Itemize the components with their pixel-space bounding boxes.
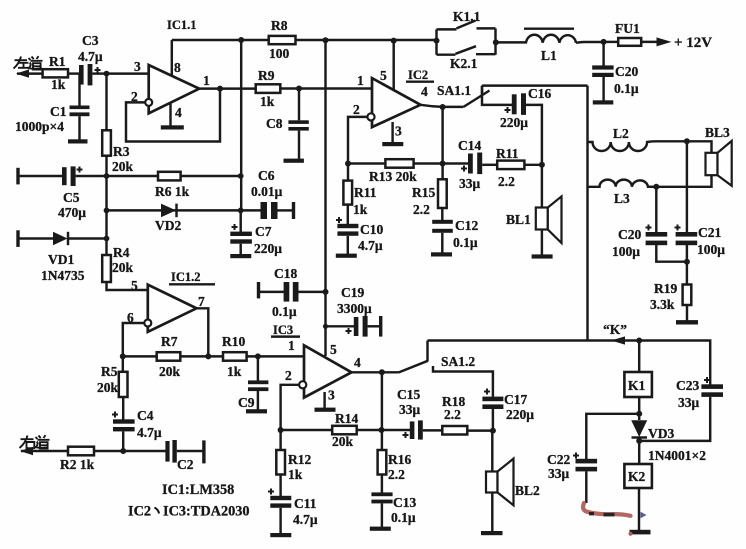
capacitor C1	[70, 106, 90, 117]
resistor R1	[43, 69, 68, 77]
ground (C10)	[336, 254, 357, 258]
svg-text:R8: R8	[271, 18, 288, 33]
wire: L1 to FU1 node	[576, 41, 604, 44]
wire: R2 to C2	[94, 450, 166, 452]
svg-text:C9: C9	[238, 395, 255, 410]
capacitor C9	[248, 380, 268, 391]
svg-text:+ 12V: + 12V	[674, 35, 712, 51]
wire: BL2 to ground	[491, 493, 493, 532]
wire: IC1.2 output down to R7 line	[196, 308, 208, 356]
wire: IC2 ground stem	[391, 122, 393, 143]
wire: IC1.1 output to R9	[199, 87, 256, 89]
wire: C18 line	[259, 291, 286, 293]
capacitor C3 (electrolytic, horizontal)	[79, 64, 101, 85]
svg-text:1: 1	[357, 73, 364, 88]
capacitor C11 (electrolytic)	[268, 489, 291, 508]
red annotation mark	[583, 503, 632, 536]
svg-text:C5: C5	[63, 190, 80, 205]
junction: VD2 line on main bus	[104, 208, 110, 214]
op-amp U1 IC1.1	[149, 65, 200, 113]
+12V arrow	[657, 37, 672, 46]
svg-text:C10: C10	[360, 222, 383, 237]
junction: rail / long bus	[323, 37, 329, 43]
wire: L3 line to BL3 bottom	[648, 175, 712, 187]
svg-text:C14: C14	[458, 138, 481, 153]
wire: R5 to C4	[122, 397, 124, 420]
wire: C3 to node A	[92, 72, 107, 74]
svg-text:R10: R10	[222, 334, 245, 349]
svg-text:3300μ: 3300μ	[337, 301, 372, 316]
wire: R12 branch	[279, 430, 281, 450]
junction: C16/R11/BL1 node	[539, 162, 545, 168]
capacitor C13	[371, 492, 392, 503]
wire: C6 to terminal	[278, 209, 294, 211]
junction: out/R7/R10 node	[205, 353, 211, 359]
terminal bar (C2 right)	[202, 440, 205, 463]
wire: BL1 to ground	[541, 230, 543, 255]
svg-text:C17: C17	[504, 392, 527, 407]
junction: K1/VD3/C22 node	[636, 411, 642, 417]
svg-text:20k: 20k	[112, 159, 134, 174]
wire: C13 to ground	[381, 503, 383, 527]
wire: node A to IC1.1 pin3	[107, 72, 150, 74]
wire: IC3 ground stem	[323, 392, 325, 408]
capacitor C5 (electrolytic)	[62, 166, 83, 186]
wire: left input line to R1	[17, 72, 42, 74]
svg-text:1N4735: 1N4735	[41, 268, 85, 283]
speaker BL3	[706, 141, 732, 186]
svg-text:C3: C3	[82, 33, 99, 48]
junction: R10/C9/IC3 pin1 node	[255, 353, 261, 359]
resistor R7	[157, 352, 181, 361]
inverting input bubble IC1.1	[145, 99, 152, 106]
wire: IC3 output and feedback riser	[351, 372, 398, 430]
svg-text:3: 3	[328, 388, 335, 403]
wire: C4 to R2 line	[122, 431, 124, 451]
ground (C13)	[370, 527, 391, 531]
relay contact K1.1 / K2.1 block	[437, 21, 496, 55]
resistor R3	[102, 130, 111, 155]
svg-text:IC1:LM358: IC1:LM358	[162, 482, 234, 498]
relay coil K2	[624, 464, 652, 488]
junction: K-block right	[493, 39, 499, 45]
svg-text:33μ: 33μ	[459, 176, 481, 191]
wire: to fuse	[604, 41, 618, 43]
speaker BL1	[536, 196, 562, 243]
svg-text:IC1.1: IC1.1	[167, 18, 197, 32]
resistor R12	[276, 450, 285, 475]
svg-text:1k: 1k	[227, 364, 242, 379]
wire: R9 to IC2 pin1	[280, 87, 372, 89]
capacitor C4 (electrolytic)	[112, 412, 135, 432]
svg-text:20k: 20k	[112, 260, 134, 275]
terminal bar (C19 right)	[379, 316, 382, 337]
junction: rail/IC2 pin5	[391, 38, 397, 44]
wire: node down to BL2	[491, 431, 493, 472]
svg-text:20k: 20k	[332, 434, 354, 449]
wire: C16 to BL1 node riser	[526, 105, 542, 165]
fuse FU1	[618, 38, 641, 46]
ground (C7)	[230, 254, 251, 258]
svg-text:IC3: IC3	[273, 323, 293, 337]
resistor R13	[385, 159, 413, 168]
ground (BL2)	[481, 531, 503, 535]
wire: C2 to terminal	[177, 450, 203, 452]
wire: node to IC3 pin1	[258, 355, 304, 357]
svg-text:100μ: 100μ	[697, 242, 725, 257]
wire: node to BL1	[541, 165, 543, 208]
svg-text:2.2: 2.2	[444, 407, 461, 422]
wire: R11 to BL1 node	[524, 164, 542, 166]
junction: rail / pin8 bus	[238, 37, 244, 43]
svg-text:5: 5	[330, 342, 337, 357]
junction: IC3 output node	[379, 369, 385, 375]
svg-text:100μ: 100μ	[612, 244, 640, 259]
svg-text:R3: R3	[113, 144, 130, 159]
wire: C16 branch	[482, 86, 512, 105]
wire: R7 line	[123, 355, 258, 357]
ground (IC1.1 pin4)	[161, 125, 184, 129]
svg-text:1k: 1k	[353, 202, 368, 217]
junction: C4/R2/C2 node	[120, 448, 126, 454]
relay coil K1	[624, 372, 652, 397]
svg-text:R6 1k: R6 1k	[155, 184, 190, 199]
svg-text:R11: R11	[496, 146, 519, 161]
svg-text:4.7μ: 4.7μ	[137, 425, 162, 440]
svg-text:2: 2	[353, 102, 360, 117]
wire: L2 to BL3	[656, 141, 712, 153]
svg-text:33μ: 33μ	[548, 466, 570, 481]
diode VD3 (cathode down)	[631, 420, 647, 437]
svg-text:L2: L2	[613, 126, 629, 141]
ground (C11)	[270, 533, 291, 537]
terminal bar (C6 right)	[292, 202, 295, 219]
svg-text:C22: C22	[547, 452, 570, 467]
capacitor C16 (electrolytic, horizontal)	[505, 93, 527, 115]
wire: node to C6	[241, 209, 262, 211]
ground (C20)	[593, 100, 614, 104]
svg-text:4: 4	[421, 84, 428, 99]
wire: IC2 pin5 riser from rail	[392, 41, 394, 91]
junction: IC2 output node	[440, 104, 446, 110]
svg-text:C1: C1	[50, 104, 67, 119]
svg-text:SA1.2: SA1.2	[441, 354, 475, 369]
svg-text:IC2: IC2	[408, 68, 428, 82]
wire: SA1.2 riser to K line	[426, 341, 428, 362]
svg-text:VD3: VD3	[648, 426, 674, 441]
switch SA1.2 blade	[399, 361, 428, 373]
wire: VD3 to K2	[638, 437, 640, 464]
ground (K2)	[630, 530, 651, 535]
op-amp U3 IC3	[304, 345, 352, 397]
node A junction	[104, 71, 110, 77]
junction: K line / K1	[636, 338, 642, 344]
wire: right vertical SA1.1 line down to K line	[586, 86, 588, 341]
svg-text:0.1μ: 0.1μ	[391, 510, 416, 525]
junction: pin6/R5/R7 node	[120, 353, 126, 359]
wire: R16 to C13	[381, 475, 383, 493]
capacitor C20 (100u, electrolytic)	[646, 225, 668, 246]
svg-text:C23: C23	[676, 378, 699, 393]
switch SA1.1 blade	[464, 91, 490, 107]
svg-text:2.2: 2.2	[498, 174, 515, 189]
svg-text:1k: 1k	[51, 77, 66, 92]
wire: R5 branch	[122, 356, 124, 372]
wire: branch to C22	[586, 414, 639, 459]
wire: K control line	[428, 341, 711, 385]
wire: drop to C1	[78, 74, 80, 106]
K line arrow	[611, 336, 625, 344]
resistor R11 (2.2)	[497, 161, 524, 170]
wire: SA1.1 throw contact tick	[481, 86, 483, 94]
blue arrow mark on red line	[641, 512, 647, 518]
wire: long bus rail to C18/C19/IC3 pin5	[324, 40, 326, 356]
junction: R9/C8 node	[296, 86, 302, 92]
junction: L1/FU1/C20 node	[601, 39, 607, 45]
svg-text:C11: C11	[294, 496, 317, 511]
svg-text:VD1: VD1	[48, 252, 74, 267]
svg-text:4.7μ: 4.7μ	[78, 49, 103, 64]
svg-text:R15: R15	[412, 185, 435, 200]
wire: vertical bus x241 (rail to VD2 line)	[240, 40, 242, 210]
junction: rail/K-block left	[434, 38, 440, 44]
wire: C21 riser	[686, 141, 688, 232]
svg-text:C7: C7	[255, 224, 272, 239]
junction: C17/R18/BL2 node	[490, 428, 496, 434]
wire: R16 branch	[381, 430, 383, 450]
input arrow right channel	[20, 447, 33, 455]
wire: R15 to C12	[441, 208, 443, 220]
junction: C19 corner	[323, 324, 328, 329]
wire: C22 bottom stub	[585, 471, 587, 503]
wire: C9 to ground	[257, 391, 259, 410]
capacitor C10 (electrolytic)	[336, 217, 358, 236]
wire: pin2 to R14 node	[281, 385, 300, 430]
svg-text:470μ: 470μ	[58, 205, 86, 220]
terminal bar (C18 left)	[257, 282, 260, 298]
svg-text:2.2: 2.2	[388, 467, 405, 482]
svg-text:R2 1k: R2 1k	[60, 457, 95, 472]
wire: C12 to ground	[441, 233, 443, 253]
resistor R2	[68, 447, 94, 456]
wire: pin 8 riser to +12V rail	[171, 40, 173, 76]
wire: bus node A down through R3,R4 to IC1.2 pin5	[107, 74, 149, 290]
inverting bubble IC3	[299, 381, 306, 388]
junction: bottom joint	[684, 259, 690, 265]
capacitor C22 (electrolytic)	[573, 453, 597, 472]
ground (C8)	[284, 159, 304, 163]
wire: pin6 to R7 node	[123, 323, 145, 356]
inductor L2	[588, 141, 657, 151]
diode VD1	[53, 232, 68, 245]
svg-text:4.7μ: 4.7μ	[358, 238, 383, 253]
svg-text:C12: C12	[455, 218, 478, 233]
wire: R11 1k branch	[347, 164, 349, 182]
wire: VD1 line	[18, 237, 54, 239]
svg-text:3: 3	[134, 59, 141, 74]
svg-text:IC1.2: IC1.2	[171, 270, 201, 284]
wire: K2 to ground	[638, 488, 640, 530]
junction: C18/bus	[323, 289, 329, 295]
wire: C8 stem	[298, 89, 300, 121]
wire: R19 to ground	[686, 305, 688, 321]
resistor R5	[119, 372, 128, 397]
wire: C1 to ground	[78, 116, 80, 140]
wire: SA1.1 line to right vertical	[482, 84, 588, 86]
svg-text:R16: R16	[388, 452, 411, 467]
svg-text:L3: L3	[614, 191, 630, 206]
ground (IC2 pin3)	[382, 142, 403, 146]
svg-text:R9: R9	[258, 68, 275, 83]
svg-text:5: 5	[380, 68, 387, 83]
svg-text:0.1μ: 0.1μ	[453, 235, 478, 250]
capacitor C18	[284, 282, 299, 302]
svg-text:C2: C2	[177, 457, 194, 472]
capacitor C6	[261, 202, 278, 219]
svg-text:C21: C21	[698, 225, 721, 240]
svg-text:“K”: “K”	[603, 322, 627, 337]
svg-text:R4: R4	[113, 245, 130, 260]
svg-text:C15: C15	[397, 387, 420, 402]
capacitor C12	[432, 220, 453, 233]
junction: R3/C5/R6 node	[104, 173, 110, 179]
junction: VD2/C6/C7 node on bus x241	[238, 208, 244, 214]
ground (C1)	[68, 139, 88, 143]
svg-text:BL3: BL3	[705, 125, 730, 140]
wire: C10 to ground	[347, 236, 349, 254]
junction: feedback tap	[217, 86, 223, 92]
node: right channel input 右道 (hand-drawn glyphs)	[20, 435, 50, 448]
wire: C20 stem	[602, 42, 604, 66]
svg-text:3.3k: 3.3k	[650, 297, 675, 312]
wire: C18 to bus	[298, 291, 326, 293]
junction: R6/bus	[238, 173, 244, 179]
svg-text:1: 1	[203, 73, 210, 88]
junction: pin2/R11/R13 node	[345, 161, 351, 167]
svg-text:5: 5	[131, 278, 138, 293]
svg-text:K2: K2	[628, 469, 646, 484]
wire: C5 line	[18, 175, 63, 177]
inductor L3	[588, 180, 656, 187]
svg-text:R7: R7	[161, 334, 178, 349]
ground (R19)	[676, 320, 698, 324]
svg-text:220μ: 220μ	[506, 407, 534, 422]
wire: R6 to bus x241	[181, 175, 241, 177]
svg-text:C13: C13	[393, 495, 416, 510]
resistor R18	[442, 426, 467, 435]
wire: C20/C21 bottom joint to R19	[656, 245, 687, 285]
wire: K1 lead	[638, 341, 640, 373]
svg-text:8: 8	[174, 60, 181, 75]
svg-text:BL2: BL2	[515, 483, 540, 498]
svg-text:33μ: 33μ	[399, 402, 421, 417]
svg-text:0.1μ: 0.1μ	[614, 81, 639, 96]
ground (IC3 pin3)	[315, 408, 336, 412]
wire: R1 to C3	[68, 72, 80, 74]
svg-text:C18: C18	[274, 266, 297, 281]
resistor R19	[683, 285, 692, 306]
wire: C17 to R18 node	[492, 409, 494, 431]
svg-text:1N4001×2: 1N4001×2	[648, 448, 706, 463]
svg-text:C20: C20	[618, 227, 641, 242]
svg-text:L1: L1	[541, 48, 557, 63]
ground (BL1)	[532, 254, 553, 258]
svg-text:BL1: BL1	[506, 212, 531, 227]
svg-text:R11: R11	[354, 185, 377, 200]
junction: VD3/K2/C23 node	[636, 438, 642, 444]
resistor R6	[158, 172, 181, 181]
svg-text:SA1.1: SA1.1	[437, 83, 471, 98]
op-amp U4 IC2	[372, 78, 421, 127]
resistor R4	[102, 255, 111, 282]
capacitor C17 (electrolytic)	[482, 389, 503, 410]
junction: R13/R15/C14 node	[440, 161, 446, 167]
wire: C20(100u) stem	[655, 187, 657, 232]
ground (C12)	[431, 252, 452, 256]
svg-text:1k: 1k	[260, 94, 275, 109]
junction: L2/C21/BL3 node	[684, 138, 690, 144]
wire: C11 to ground	[279, 508, 281, 534]
svg-text:100: 100	[269, 46, 290, 61]
svg-text:1k: 1k	[288, 467, 303, 482]
terminal bar (VD1 input)	[16, 230, 19, 247]
wire: feedback loop IC1.1 output to pin2	[126, 89, 220, 142]
junction: L3/C20 node	[653, 184, 659, 190]
wire: VD2 line	[107, 209, 241, 211]
wire: K-block to L1	[496, 41, 527, 43]
svg-text:0.1μ: 0.1μ	[272, 304, 297, 319]
wire: IC2 output to SA1.1	[420, 105, 463, 107]
capacitor C23 (electrolytic)	[701, 377, 723, 397]
svg-text:1: 1	[288, 338, 295, 353]
svg-text:20k: 20k	[159, 364, 181, 379]
junction: VD1/R4 node	[104, 236, 110, 242]
wire: IC1.1 ground stem	[169, 103, 171, 126]
wire: C19 to terminal	[368, 325, 380, 327]
junction: pin2/R12/R14 node	[278, 427, 284, 433]
svg-text:C8: C8	[266, 116, 283, 131]
svg-text:R1: R1	[49, 54, 66, 69]
svg-text:0.01μ: 0.01μ	[251, 184, 283, 199]
wire: R15 branch	[441, 164, 443, 180]
input arrow (left)	[16, 69, 29, 77]
resistor R15	[438, 179, 447, 208]
svg-text:4: 4	[354, 355, 361, 370]
ground (C9)	[246, 409, 267, 413]
svg-text:IC2: IC2	[128, 504, 151, 520]
wire: +12V top rail left span	[172, 39, 437, 41]
node: left channel input 左道 (hand-drawn glyphs)	[14, 56, 43, 69]
capacitor C19 (electrolytic)	[346, 316, 368, 337]
wire: R12 to C11	[279, 475, 281, 497]
wire: R14 line	[281, 429, 411, 431]
resistor R16	[378, 450, 387, 475]
svg-text:C19: C19	[341, 285, 364, 300]
capacitor C14 (electrolytic, horizontal)	[461, 153, 482, 175]
wire: C7 to ground	[239, 244, 241, 255]
wire: C8 to ground	[298, 131, 300, 159]
svg-text:220μ: 220μ	[254, 241, 282, 256]
capacitor C2	[165, 440, 176, 463]
svg-text:C20: C20	[615, 64, 638, 79]
wire: C7 stem	[239, 210, 241, 232]
wire: C20 to ground	[602, 77, 604, 101]
svg-text:R12: R12	[288, 452, 311, 467]
svg-text:VD2: VD2	[155, 218, 181, 233]
wire: K1 to VD3 node	[638, 397, 640, 420]
wire: C14 to R11	[482, 164, 497, 166]
wire: C9 stem	[257, 356, 259, 380]
